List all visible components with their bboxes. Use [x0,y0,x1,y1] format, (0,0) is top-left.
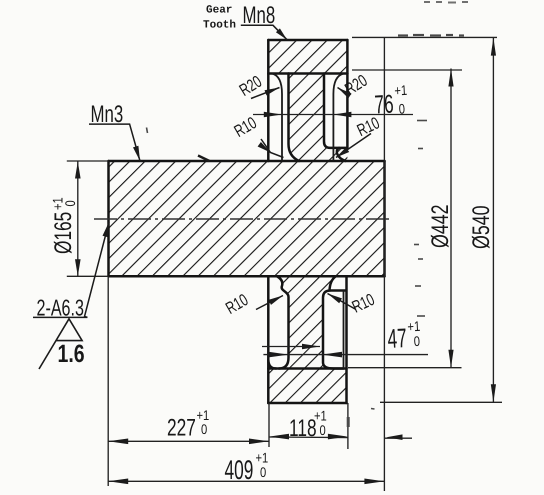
ext line right vertical x384 [383,38,385,491]
arrow R10 top-left [258,142,271,153]
svg-text:Mn3: Mn3 [91,101,124,128]
dim line right stub [385,437,412,439]
upper right root arc line [333,74,343,161]
arrow 118 left [269,434,289,440]
dim line phi540 [492,38,494,403]
thin root lines group [272,74,344,369]
dim line 409 [108,480,384,482]
svg-text:227: 227 [167,415,196,442]
dim line 227 [108,440,269,442]
hub outline top edge [109,160,385,163]
hub outline bottom edge [109,275,385,278]
leader Mn8 [241,25,287,39]
gear rim upper section (hatched) [268,40,347,161]
ext line rim right down [347,403,349,449]
hub right edge [383,161,386,276]
upper left tooth space (white) [268,74,299,162]
outlines group [109,40,385,403]
ext line phi442 top [352,69,462,71]
centerline dash-dot [94,218,390,220]
upper left root arc line [272,74,282,161]
label 76 with tolerance [373,82,408,120]
svg-text:0: 0 [201,421,207,437]
hub left edge [107,161,110,276]
ext line phi540 bottom [380,401,502,403]
arrow Mn8 [276,28,287,39]
arrow phi442 top [448,69,453,87]
svg-text:47: 47 [387,323,408,354]
upper right slot face [324,74,347,148]
surface finish symbol [39,319,82,369]
lower rim right edge [345,277,348,404]
svg-text:+1: +1 [394,82,408,99]
ext line hub bottom left [67,275,109,277]
svg-text:2-A6.3: 2-A6.3 [37,295,84,321]
gear rim lower section (hatched) [268,277,346,404]
arrow right stub [387,434,403,440]
svg-text:118: 118 [289,415,317,442]
svg-text:76: 76 [374,89,395,120]
lower rim band top line [268,367,346,370]
hub cylinder section (hatched) [109,161,385,276]
arrow phi540 bottom [491,384,496,402]
arrowheads group [75,28,496,484]
dim line 47 lower [263,354,428,356]
arrow R10 top-right [336,147,349,157]
arrow R10 bottom-right [328,294,343,304]
svg-text:Ø165: Ø165 [50,212,77,254]
arrow phi165 top [75,162,81,179]
leader lines group [33,25,371,317]
extension lines group [67,37,502,491]
leader R10 top-left [261,139,284,158]
svg-text:R10: R10 [349,290,377,317]
arrow phi165 bottom [75,259,81,276]
dim line 47 upper [262,346,320,348]
ext line phi540 top [352,36,497,38]
upper slots top edge line [268,72,347,75]
lower right slot inner line [343,291,345,369]
lower right slot profile [323,277,344,369]
dim line phi165 [77,162,79,277]
lower rim bottom edge [268,402,346,405]
svg-text:0: 0 [62,200,78,206]
ext line hub left edge down [107,276,109,486]
arrow phi540 top [491,38,496,56]
svg-text:Gear: Gear [206,5,232,17]
Mn3 leader extra tick [198,156,210,162]
svg-text:0: 0 [413,333,420,349]
lower left slot corner fillet [268,360,276,369]
lower left slot profile [277,277,288,369]
svg-text:0: 0 [398,100,405,116]
svg-text:R20: R20 [236,72,265,100]
lower rim left edge [267,277,270,404]
arrow R10 bottom-left [268,296,283,305]
svg-text:R10: R10 [223,290,252,318]
lower left tooth space (white) [268,277,288,369]
svg-text:Ø540: Ø540 [468,206,495,249]
arrow 227 left [108,439,128,445]
arrow 409 right [364,479,384,485]
leader R10 bottom-right [328,294,357,310]
upper left slot face [289,74,300,162]
upper right slot step curve [337,148,346,161]
arrow 227 right [249,439,269,445]
dimension lines group [78,38,494,482]
svg-text:Ø442: Ø442 [427,205,454,248]
arrow R20 left [265,88,280,96]
faint scan marks top right [398,34,464,37]
upper right tooth space (white) [324,74,347,148]
arrow 76 right [333,112,351,118]
lower right tooth space (white) [323,277,346,369]
dim line phi442 [450,69,452,368]
svg-text:409: 409 [225,455,254,485]
dim line 118 [269,436,348,439]
arrow 47 lower-right [322,352,342,358]
leader R20 right [338,88,350,96]
dim line 76 [253,114,413,116]
leader R20 left [251,88,280,99]
upper rim top edge [268,39,347,42]
label 47 with tolerance [387,318,422,354]
leader Mn3 [89,124,140,161]
svg-text:0: 0 [320,422,326,438]
leader R10 bottom-left [256,296,283,310]
arrow phi442 bottom [448,350,453,368]
arrow 47 upper [302,344,320,350]
lower right slot top edge [330,289,346,292]
faint dash marks right column [147,121,428,428]
svg-text:R10: R10 [231,113,260,141]
arrow 118 right [328,434,348,440]
svg-text:Mn8: Mn8 [243,2,276,29]
svg-text:1.6: 1.6 [58,340,85,368]
ext line hub top left [67,160,109,162]
label phi165 with tolerance [50,197,79,254]
upper rim left edge [267,40,270,161]
upper rim right edge [346,40,349,149]
arrow 47 lower-left [269,352,289,358]
svg-text:Tooth: Tooth [203,20,236,32]
leader 2-A6.3 [33,222,109,317]
svg-text:0: 0 [260,464,266,480]
arrow 409 left [108,479,128,485]
ext line rim left down [268,403,270,447]
ext line phi442 bottom [348,367,462,369]
leader R10 top-right [336,134,371,158]
arrow 76 left [264,112,282,118]
arrow R20 right [338,88,352,99]
arrow 2-A6.3 leader [103,222,110,237]
arrow Mn3 [133,146,140,161]
